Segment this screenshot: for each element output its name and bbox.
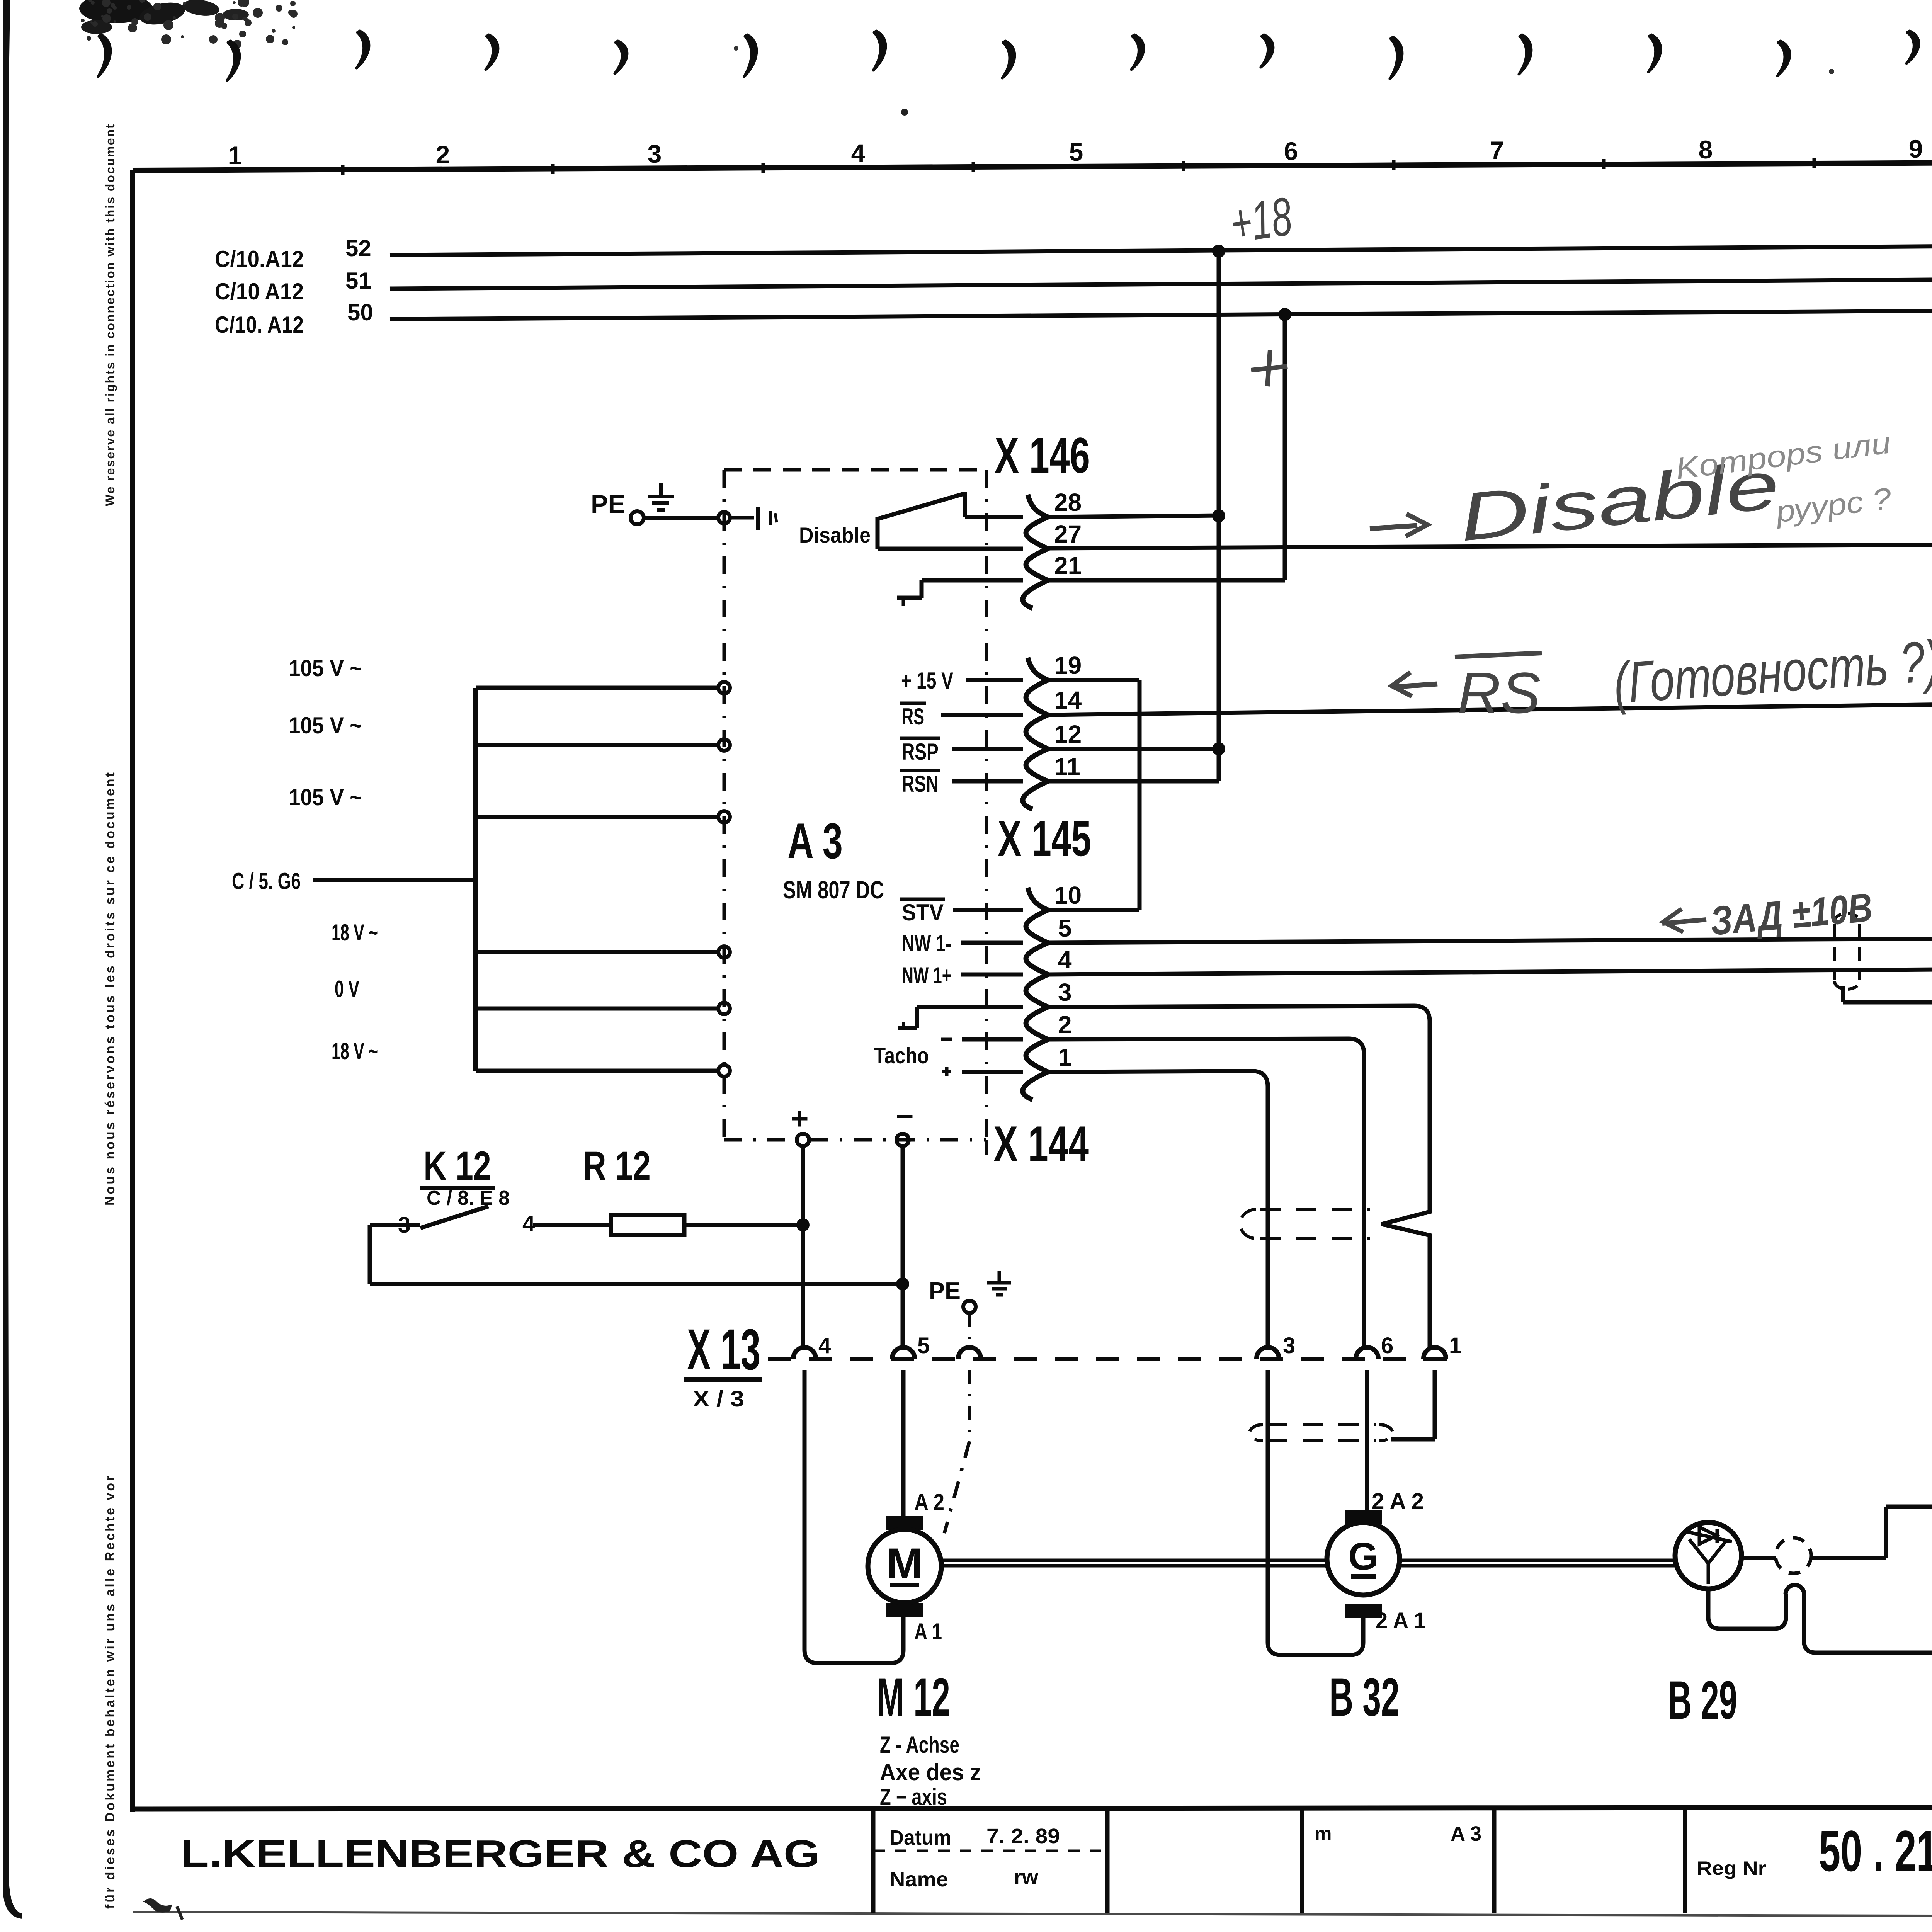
wire K12 loop to minus — [368, 1225, 372, 1284]
svg-text:14: 14 — [1054, 686, 1082, 714]
wire RS stub — [941, 713, 1023, 717]
X13 dashed line — [768, 1357, 1453, 1361]
supply bus vertical — [473, 688, 478, 1071]
wire 19-10 loop — [1048, 678, 1139, 682]
wire X13-5 to M12 A2 — [901, 1370, 906, 1516]
svg-text:1: 1 — [1058, 1043, 1072, 1071]
wire tacho+ stub — [962, 1070, 1023, 1074]
svg-text:52: 52 — [345, 235, 371, 261]
wire pin3 to X13-1 — [1048, 1006, 1414, 1007]
svg-text:21: 21 — [1054, 552, 1082, 580]
svg-text:C / 8. E 8: C / 8. E 8 — [427, 1187, 510, 1209]
wire X145-1 down — [1252, 1071, 1268, 1347]
X13 PE pin — [958, 1347, 981, 1359]
svg-text:1: 1 — [1449, 1333, 1461, 1358]
wire RSN stub — [952, 779, 1023, 784]
svg-text:12: 12 — [1054, 720, 1082, 748]
handwritten arrow Disable — [1370, 526, 1417, 529]
svg-text:STV: STV — [902, 900, 944, 925]
column ticks — [341, 165, 345, 175]
wire +15V stub — [966, 678, 1023, 682]
PE circle — [631, 511, 644, 524]
svg-text:1: 1 — [228, 141, 242, 170]
svg-text:5: 5 — [1069, 138, 1083, 166]
wire B29 right — [1742, 1556, 1776, 1560]
connector X145 upper pins — [1023, 658, 1048, 809]
wire NW1- stub — [961, 941, 1023, 945]
X13 pin 5 — [892, 1347, 915, 1359]
svg-text:C / 5. G6: C / 5. G6 — [232, 868, 301, 894]
wire pin3 chassis stub — [917, 1005, 1023, 1009]
scan edge artifact left — [3, 0, 22, 1919]
wire 18V feed — [476, 950, 718, 954]
wire pin down to J row — [1802, 1594, 1806, 1641]
svg-text:X / 3: X / 3 — [693, 1386, 744, 1412]
PE dash-dot to motor frame — [968, 1370, 971, 1441]
wire coupling to X35 bus — [1811, 1556, 1886, 1560]
wire pin21 + ground stub — [922, 578, 1023, 583]
wire RS long — [1048, 704, 1932, 715]
wire pin1 to X13-3 — [1048, 1071, 1252, 1072]
shaft B32-B29 — [1400, 1559, 1675, 1562]
svg-text:7. 2. 89: 7. 2. 89 — [986, 1825, 1060, 1848]
svg-text:105 V ~: 105 V ~ — [289, 784, 362, 810]
svg-text:−: − — [896, 1099, 914, 1133]
svg-text:C/10 A12: C/10 A12 — [215, 279, 304, 304]
svg-text:50 . 211 . 11: 50 . 211 . 11 — [1819, 1818, 1932, 1883]
svg-text:B 32: B 32 — [1329, 1667, 1400, 1727]
svg-text:4: 4 — [522, 1211, 535, 1236]
wire NW1- long — [1048, 938, 1932, 943]
svg-text:Axe des z: Axe des z — [880, 1759, 981, 1785]
handwritten arrow RS — [1393, 684, 1437, 687]
svg-text:6: 6 — [1284, 137, 1298, 165]
wire net S0 — [390, 308, 1932, 319]
wire X145-3 down w/ shield neck — [1382, 1006, 1430, 1338]
svg-text:6: 6 — [1381, 1333, 1393, 1358]
X13 pin 1 — [1423, 1347, 1446, 1359]
svg-text:51: 51 — [345, 268, 371, 294]
wire PE-A3 — [644, 516, 718, 520]
svg-text:A 3: A 3 — [787, 813, 843, 869]
svg-text:C/10. A12: C/10. A12 — [215, 312, 304, 338]
svg-text:G: G — [1348, 1535, 1378, 1578]
wire 105V feed 1 — [476, 686, 718, 690]
sheet frame border — [133, 160, 1932, 170]
svg-text:Reg Nr: Reg Nr — [1697, 1857, 1766, 1879]
svg-text:m: m — [1315, 1823, 1332, 1844]
X13 pin 3 — [1257, 1347, 1279, 1359]
generator B32 — [1345, 1510, 1382, 1524]
motor M12 — [886, 1516, 923, 1530]
wire 105V feed 2 — [476, 743, 718, 747]
wire X13-6 to B32 2A2 — [1365, 1370, 1369, 1510]
wire NW1+ stub — [961, 973, 1023, 977]
wire NW1+ long — [1048, 968, 1932, 975]
svg-text:rw: rw — [1014, 1866, 1039, 1889]
svg-text:NW 1-: NW 1- — [902, 930, 951, 956]
svg-text:2: 2 — [436, 140, 450, 169]
wire RSP stub — [952, 747, 1023, 751]
wire net S2 — [390, 243, 1932, 255]
shield oval tacho pair — [1260, 1208, 1370, 1211]
suppressor mark — [730, 516, 754, 520]
wire tacho- stub — [962, 1037, 1023, 1042]
wire STV stub — [953, 908, 1023, 912]
wire X144+ down to X13-4 — [801, 1146, 805, 1347]
svg-text:X 13: X 13 — [687, 1317, 760, 1382]
wire pin28 — [965, 515, 1023, 519]
sprocket marks row — [98, 35, 111, 77]
wire STV right — [1048, 908, 1139, 912]
wire 0V feed — [476, 1007, 718, 1011]
svg-text:5: 5 — [1058, 914, 1072, 942]
svg-text:Nous nous réservons tous les d: Nous nous réservons tous les droits sur … — [103, 770, 117, 1206]
svg-text:4: 4 — [818, 1333, 831, 1358]
shaft M12-B32 — [942, 1559, 1327, 1562]
svg-text:A 3: A 3 — [1451, 1822, 1481, 1845]
shield oval below X13 — [1267, 1423, 1376, 1426]
svg-text:50: 50 — [347, 299, 373, 325]
wire X13-4 to M12 A1 loop — [803, 1370, 807, 1650]
coupling pin bump — [1786, 1585, 1804, 1594]
wire +18 vertical — [1217, 250, 1221, 749]
svg-text:Name: Name — [889, 1868, 948, 1891]
scribble bottom-left — [143, 1898, 172, 1913]
svg-text:K 12: K 12 — [423, 1143, 491, 1189]
svg-text:8: 8 — [1699, 135, 1713, 164]
svg-text:RSN: RSN — [902, 771, 939, 797]
handwritten ZAD — [1662, 920, 1706, 923]
wire RSP to +18 — [1048, 747, 1219, 751]
svg-text:Tacho: Tacho — [874, 1043, 929, 1068]
svg-text:0 V: 0 V — [335, 976, 359, 1002]
svg-text:SM 807 DC: SM 807 DC — [783, 876, 884, 904]
svg-text:RS: RS — [902, 704, 924, 730]
wire pin27 Disable — [878, 547, 1023, 551]
svg-text:18 V ~: 18 V ~ — [332, 920, 378, 946]
svg-text:C/10.A12: C/10.A12 — [215, 246, 304, 272]
tachometer B29 — [1675, 1522, 1742, 1589]
wire X13-1 shield tail — [1433, 1370, 1437, 1439]
wire S0 drop — [1283, 314, 1287, 580]
wire RSN up — [1048, 779, 1219, 784]
B29 bottom loop — [1706, 1589, 1711, 1617]
svg-text:A 2: A 2 — [914, 1489, 944, 1515]
wire shield to pin29 — [1841, 986, 1845, 1002]
svg-text:X 144: X 144 — [993, 1116, 1089, 1172]
svg-text:RSP: RSP — [902, 739, 939, 765]
wire X13-3 to B32 2A1 loop — [1266, 1370, 1270, 1642]
svg-text:105 V ~: 105 V ~ — [289, 713, 362, 738]
svg-text:PE: PE — [591, 490, 625, 518]
wire X144- down to X13-5 — [901, 1146, 905, 1347]
svg-text:2: 2 — [1058, 1011, 1072, 1039]
svg-text:3: 3 — [1283, 1333, 1295, 1358]
svg-text:X 146: X 146 — [995, 427, 1090, 483]
wire 105V feed 3 — [476, 815, 718, 819]
svg-text:X 145: X 145 — [998, 810, 1091, 867]
svg-text:PE: PE — [929, 1278, 961, 1304]
svg-text:für dieses Dokument behalten w: für dieses Dokument behalten wir uns all… — [103, 1474, 117, 1909]
coupling dashed circle — [1776, 1538, 1811, 1573]
svg-text:Z - Achse: Z - Achse — [880, 1732, 959, 1758]
handwritten plus — [1251, 366, 1287, 370]
svg-text:Datum: Datum — [889, 1826, 951, 1849]
svg-text:9: 9 — [1909, 134, 1923, 163]
svg-text:5: 5 — [917, 1333, 930, 1358]
svg-text:Disable: Disable — [799, 523, 871, 547]
svg-text:4: 4 — [851, 139, 866, 167]
svg-text:M: M — [886, 1539, 922, 1588]
wire 18V feed lower — [476, 1069, 718, 1073]
svg-text:R 12: R 12 — [583, 1143, 651, 1189]
svg-text:NW 1+: NW 1+ — [902, 963, 951, 988]
svg-text:+ 15 V: + 15 V — [901, 668, 953, 694]
connector X146 pins — [1023, 495, 1048, 608]
junction circle A3 edge — [718, 512, 730, 524]
svg-text:3: 3 — [1058, 978, 1072, 1006]
svg-text:L.KELLENBERGER & CO AG: L.KELLENBERGER & CO AG — [180, 1832, 820, 1876]
title block dividers — [871, 1809, 876, 1913]
svg-text:B 29: B 29 — [1668, 1670, 1737, 1730]
svg-text:18 V ~: 18 V ~ — [332, 1038, 378, 1064]
svg-text:A 1: A 1 — [914, 1619, 942, 1645]
scan smudge top-left — [79, 0, 153, 23]
A3 dashed box — [724, 468, 986, 472]
svg-text:19: 19 — [1054, 651, 1082, 679]
wire pin2 to X13-6 — [1048, 1039, 1349, 1039]
svg-text:10: 10 — [1054, 881, 1082, 909]
wire X145-2 down — [1349, 1039, 1364, 1347]
X13 pin 6 — [1356, 1347, 1378, 1359]
svg-text:RS: RS — [1458, 660, 1541, 725]
svg-text:11: 11 — [1054, 753, 1080, 781]
connector X145 lower pins — [1023, 888, 1048, 1100]
svg-text:2 A 1: 2 A 1 — [1376, 1608, 1426, 1633]
svg-text:27: 27 — [1054, 520, 1082, 548]
wire net S1 — [390, 277, 1932, 289]
svg-text:We reserve all rights in conne: We reserve all rights in connection with… — [103, 123, 117, 506]
svg-text:4: 4 — [1058, 946, 1072, 974]
X13 pin 4 — [793, 1347, 816, 1359]
svg-text:7: 7 — [1490, 136, 1504, 165]
ground at PE — [659, 483, 663, 497]
shield oval NW pair — [1833, 924, 1836, 980]
svg-text:28: 28 — [1054, 488, 1082, 516]
svg-text:105 V ~: 105 V ~ — [289, 655, 362, 681]
svg-text:+18: +18 — [1226, 185, 1295, 254]
svg-text:2 A 2: 2 A 2 — [1372, 1489, 1424, 1514]
svg-text:3: 3 — [648, 139, 662, 168]
svg-text:Z − axis: Z − axis — [880, 1784, 947, 1810]
svg-text:M 12: M 12 — [877, 1667, 950, 1727]
svg-text:+: + — [791, 1101, 809, 1136]
